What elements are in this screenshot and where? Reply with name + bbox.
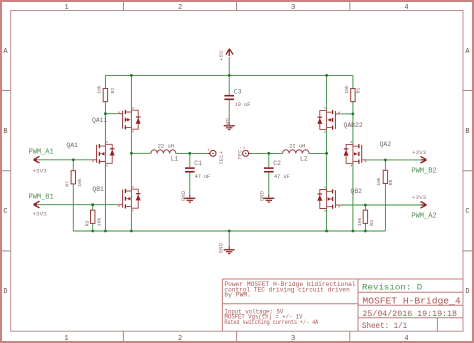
svg-text:by PWM.: by PWM.	[224, 292, 251, 299]
wire gate node to QA11 gate	[105, 113, 117, 115]
svg-text:C2: C2	[273, 160, 281, 167]
svg-text:25/04/2016 19:19:18: 25/04/2016 19:19:18	[362, 309, 457, 319]
junction QAB22 drain at +5V rail	[325, 74, 328, 77]
svg-text:QB1: QB1	[92, 186, 104, 193]
inductor L2	[283, 150, 309, 154]
wire C3 to GND	[228, 100, 230, 122]
wire R7 top	[72, 160, 74, 171]
transistor QB2	[317, 186, 340, 211]
svg-text:47 uF: 47 uF	[195, 174, 211, 180]
wire C2 tap	[268, 153, 270, 167]
svg-text:R8: R8	[388, 179, 394, 185]
ground bottom rail	[224, 250, 235, 254]
svg-text:A: A	[3, 48, 8, 56]
svg-text:R2: R2	[110, 88, 116, 94]
resistor R8	[383, 170, 387, 183]
junction QB2 source at GND rail	[325, 230, 328, 233]
transistor QA1	[92, 141, 115, 166]
junction QB1 source at GND rail	[130, 230, 133, 233]
svg-text:+3V3: +3V3	[33, 211, 48, 218]
wire QA11 source to mid node	[130, 129, 132, 153]
wire TEC- to C2 node	[251, 152, 283, 154]
svg-text:C3: C3	[234, 89, 242, 96]
wire C2 to GND	[268, 171, 270, 194]
junction node A gate of QA11	[104, 112, 107, 115]
wire rail to QAB22	[326, 75, 328, 110]
wire +5V stem	[228, 57, 230, 75]
junction left half-bridge output	[130, 152, 133, 155]
junction C2 tap	[267, 152, 270, 155]
junction R8 top on PWM_B2	[384, 159, 387, 162]
ground under C3	[224, 126, 235, 130]
junction QA11 drain at +5V rail	[130, 74, 133, 77]
svg-text:R3: R3	[84, 220, 90, 226]
wire QA1 source to bottom rail	[104, 163, 106, 231]
transistor QAB22	[317, 107, 340, 132]
wire rail to QA11 drain	[130, 75, 132, 110]
svg-text:R7: R7	[64, 181, 70, 187]
wire gate node B to QAB22 gate	[340, 113, 353, 115]
capacitor C2	[264, 168, 274, 172]
title block outline	[222, 279, 463, 331]
wire QAB22 to right mid node	[326, 129, 328, 153]
junction R4 bottom at GND rail	[364, 230, 367, 233]
svg-text:10k: 10k	[344, 85, 350, 94]
frame row ticks	[2, 91, 472, 251]
wire R1 to gate node B	[352, 101, 354, 114]
resistor R3	[91, 210, 95, 223]
svg-text:2: 2	[178, 4, 182, 12]
svg-text:22 uH: 22 uH	[158, 143, 174, 149]
connector TEC-	[243, 150, 249, 156]
junction QA1 source at GND rail	[104, 230, 107, 233]
svg-text:+3V3: +3V3	[33, 167, 48, 174]
svg-text:R4: R4	[369, 220, 375, 226]
capacitor C3	[224, 96, 234, 100]
transistor QA11	[118, 107, 141, 132]
wire QA2 source to bottom rail	[352, 163, 354, 231]
svg-text:10k: 10k	[376, 177, 382, 186]
svg-text:3: 3	[291, 335, 295, 343]
connector TEC+	[210, 150, 216, 156]
svg-text:TEC-: TEC-	[237, 146, 244, 160]
svg-text:PWM_A1: PWM_A1	[29, 148, 54, 156]
svg-text:A: A	[465, 48, 470, 56]
svg-text:4: 4	[404, 335, 408, 343]
junction R3 top on PWM_B1	[91, 203, 94, 206]
wire QB2 to bottom rail	[326, 209, 328, 232]
svg-text:10k: 10k	[357, 218, 363, 227]
wire C1 to GND	[189, 171, 191, 194]
power +3V3 arrow right bottom	[421, 202, 427, 209]
inductor L1	[151, 150, 176, 154]
power +3V3 arrow left bottom	[34, 201, 40, 208]
capacitor C1	[185, 168, 195, 172]
svg-text:22 uH: 22 uH	[289, 144, 305, 150]
wire bottom rail	[73, 230, 385, 232]
junction C3 tap at +5V rail	[228, 74, 231, 77]
transistor QA2	[344, 141, 367, 166]
wire PWM_B2	[367, 159, 422, 161]
wire R4 bottom to rail	[364, 224, 366, 231]
svg-text:L2: L2	[300, 155, 308, 162]
junction R3 bottom at GND rail	[91, 230, 94, 233]
wire top +5V rail	[105, 74, 353, 76]
wire bottom GND stub	[228, 231, 230, 246]
wire rail to C3	[228, 75, 230, 95]
svg-text:B: B	[3, 128, 7, 136]
svg-text:3: 3	[291, 4, 295, 12]
wire R2 to gate node A	[104, 101, 106, 114]
junction right half-bridge output	[325, 152, 328, 155]
wire R4 top	[364, 205, 366, 210]
svg-text:R1: R1	[356, 88, 362, 94]
svg-text:10k: 10k	[97, 85, 103, 94]
svg-text:GND: GND	[218, 243, 225, 254]
wire R8 bottom to rail	[384, 184, 386, 231]
svg-text:QA1: QA1	[66, 142, 78, 149]
wire R8 top	[384, 160, 386, 170]
wire PWM_A2	[340, 204, 421, 206]
svg-text:47 uF: 47 uF	[274, 174, 290, 180]
wire R7 bottom to rail	[72, 184, 74, 231]
wire R3 top	[92, 205, 94, 211]
svg-text:10 uF: 10 uF	[235, 102, 251, 108]
svg-text:QAB22: QAB22	[344, 122, 363, 129]
resistor R4	[363, 210, 367, 223]
svg-text:C: C	[465, 208, 469, 216]
svg-text:+3V3: +3V3	[412, 149, 427, 156]
wire QB1 source to bottom rail	[130, 208, 132, 231]
junction GND tap at GND rail	[228, 230, 231, 233]
wire gate node down to QA1 drain	[104, 114, 106, 145]
svg-text:Revision: D: Revision: D	[362, 283, 422, 293]
svg-text:C1: C1	[194, 160, 202, 167]
svg-text:B: B	[465, 128, 469, 136]
svg-text:MOSFET H-Bridge_4: MOSFET H-Bridge_4	[362, 296, 461, 307]
svg-text:QA2: QA2	[380, 141, 392, 148]
svg-text:C: C	[3, 208, 7, 216]
wire right mid node to QB2	[326, 153, 328, 189]
junction C1 tap	[188, 152, 191, 155]
junction node B gate of QAB22	[352, 113, 355, 116]
svg-text:TEC+: TEC+	[218, 150, 225, 164]
svg-text:L1: L1	[171, 155, 179, 162]
svg-text:1: 1	[65, 335, 69, 343]
wire R3 bottom to rail	[92, 224, 94, 231]
svg-text:QA11: QA11	[92, 117, 108, 124]
wire mid node to L1	[131, 152, 151, 154]
wire rail to R1	[352, 75, 354, 88]
resistor R7	[71, 171, 75, 184]
power +3V3 arrow left top	[34, 156, 40, 163]
wire PWM_A1	[37, 159, 92, 161]
wire C1 tap	[189, 153, 191, 167]
wire L1 to TEC+	[176, 152, 208, 154]
junction R7 top on PWM_A1	[72, 158, 75, 161]
svg-text:PWM_B2: PWM_B2	[411, 168, 436, 176]
svg-text:PWM_A2: PWM_A2	[411, 213, 436, 221]
power +3V3 arrow right top	[421, 156, 427, 163]
wire gate node B to QA2 drain	[352, 114, 354, 144]
svg-text:D: D	[465, 288, 469, 296]
svg-text:1: 1	[65, 4, 69, 12]
power +5V arrow	[226, 49, 233, 56]
svg-text:D: D	[3, 288, 7, 296]
svg-text:2: 2	[178, 335, 182, 343]
svg-text:Rated switching currents +/- 4: Rated switching currents +/- 4A	[224, 319, 318, 326]
wire L2 to right mid node	[309, 152, 327, 154]
junction QA2 source at GND rail	[352, 230, 355, 233]
svg-text:4: 4	[404, 4, 408, 12]
svg-text:GND: GND	[225, 118, 232, 129]
ground under C1	[184, 198, 195, 202]
svg-text:10k: 10k	[77, 178, 83, 187]
svg-text:+3V3: +3V3	[412, 194, 427, 201]
svg-text:QB2: QB2	[351, 188, 363, 195]
svg-text:+5V: +5V	[218, 50, 225, 61]
svg-text:PWM_B1: PWM_B1	[29, 193, 54, 201]
junction R4 top on PWM_A2	[364, 204, 367, 207]
ground under C2	[263, 198, 274, 202]
svg-text:Sheet: 1/1: Sheet: 1/1	[362, 322, 407, 331]
svg-text:GND: GND	[180, 190, 187, 201]
frame column ticks	[123, 2, 349, 341]
svg-text:10k: 10k	[97, 218, 103, 227]
transistor QB1	[118, 186, 141, 211]
wire mid node to QB1 drain	[130, 153, 132, 189]
wire rail to R2	[104, 75, 106, 88]
resistor R1	[351, 89, 355, 102]
resistor R2	[103, 89, 107, 102]
svg-text:GND: GND	[259, 190, 266, 201]
wire PWM_B1	[37, 204, 118, 206]
